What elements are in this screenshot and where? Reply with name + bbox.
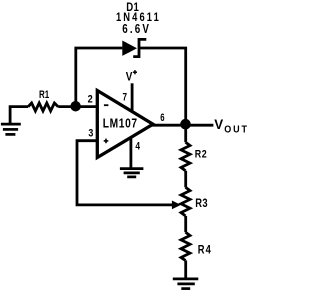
node A junction dot (inverting input node) <box>70 101 81 112</box>
svg-text:6: 6 <box>160 111 165 124</box>
svg-text:V: V <box>214 117 223 132</box>
svg-text:4: 4 <box>135 140 140 153</box>
diode D1 triangle (anode) <box>122 41 137 56</box>
wire left input from ground corner to R1 <box>10 107 28 124</box>
plus sign (non-inverting input) <box>104 139 109 144</box>
pin 4 ground wire <box>129 138 132 168</box>
ground (bottom of divider) <box>173 279 199 289</box>
resistor R2 <box>181 142 190 171</box>
svg-text:2: 2 <box>88 94 93 106</box>
minus sign (inverting input) <box>104 104 109 106</box>
svg-text:3: 3 <box>88 127 93 139</box>
wire R2 to R3 <box>184 171 187 188</box>
wire node to R2 <box>184 125 187 142</box>
svg-text:R2: R2 <box>195 149 207 161</box>
diode D1 zener cathode bar <box>133 39 146 56</box>
svg-text:OUT: OUT <box>224 124 249 136</box>
wire from R1 to op-amp pin 2 <box>58 105 97 108</box>
wire feedback: left vertical and top rail to diode anode <box>76 48 123 107</box>
wiper arrow into R3 <box>172 201 181 210</box>
wire from diode cathode along top rail, down right side to output node <box>139 48 186 125</box>
svg-text:LM107: LM107 <box>103 116 138 130</box>
svg-text:R1: R1 <box>39 89 50 102</box>
wire R4 to ground <box>184 260 187 278</box>
node VOUT junction dot <box>180 119 191 130</box>
resistor R4 <box>181 232 190 260</box>
wire R3 to R4 <box>184 216 187 232</box>
ground (op-amp pin 4) <box>120 169 143 177</box>
ground (left, at R1 input) <box>1 124 21 134</box>
svg-text:V: V <box>126 71 133 84</box>
op-amp U1 LM107 triangle <box>97 91 153 158</box>
pin 7 supply wire <box>131 83 134 112</box>
resistor R1 <box>28 103 58 111</box>
svg-text:7: 7 <box>123 91 128 104</box>
svg-text:R3: R3 <box>195 197 208 210</box>
svg-text:6.6V: 6.6V <box>122 23 151 36</box>
pin 6 output wire <box>152 124 214 127</box>
svg-text:R4: R4 <box>198 244 212 257</box>
pin 3 wire to wiper: left, down, right <box>77 141 172 205</box>
potentiometer R3 <box>181 187 190 216</box>
